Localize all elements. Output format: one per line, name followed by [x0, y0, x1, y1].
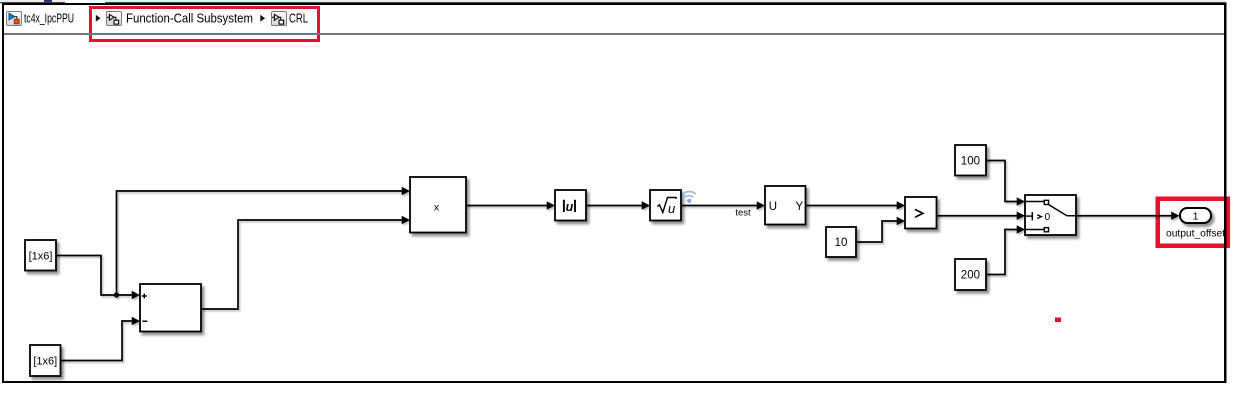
svg-text:CRL: CRL	[289, 11, 308, 25]
svg-text:[1x6]: [1x6]	[29, 251, 53, 263]
svg-text:x: x	[434, 202, 440, 214]
svg-text:100: 100	[961, 155, 980, 167]
svg-text:U: U	[769, 201, 777, 213]
svg-text:Function-Call Subsystem: Function-Call Subsystem	[126, 11, 253, 25]
svg-text:tc4x_IpcPPU: tc4x_IpcPPU	[24, 11, 74, 25]
svg-text:test: test	[735, 208, 751, 219]
svg-text:[1x6]: [1x6]	[33, 356, 57, 368]
svg-text:0: 0	[1045, 212, 1051, 223]
svg-text:200: 200	[961, 270, 980, 282]
svg-text:u: u	[566, 200, 574, 214]
svg-text:output_offset: output_offset	[1166, 228, 1225, 239]
svg-text:u: u	[668, 201, 675, 216]
svg-text:1: 1	[1193, 211, 1199, 223]
svg-text:Y: Y	[796, 201, 804, 213]
svg-text:10: 10	[835, 237, 848, 249]
